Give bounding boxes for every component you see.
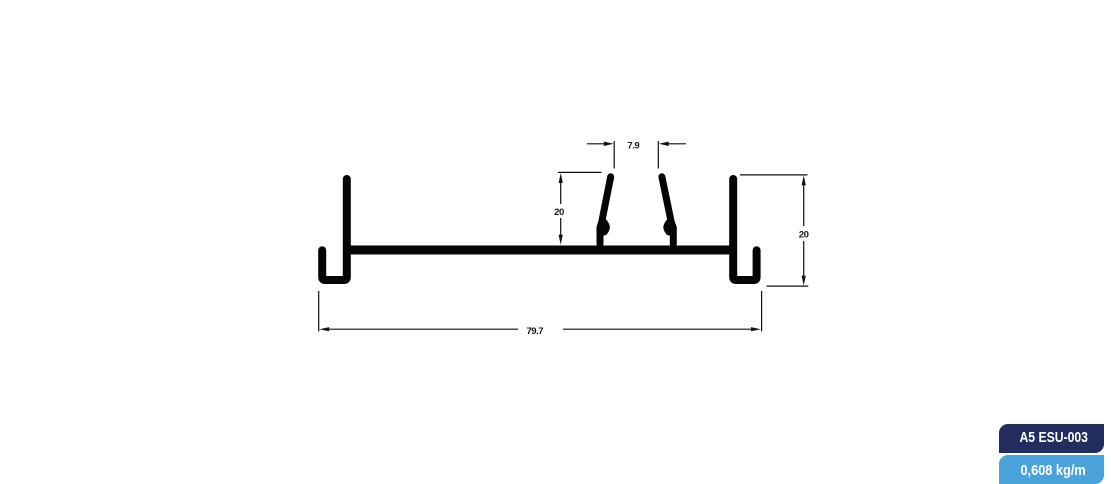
profile main horizontal bar (343, 246, 737, 255)
svg-text:79.7: 79.7 (526, 326, 543, 337)
dim 20 left: dimension line lower segment (560, 218, 562, 236)
svg-text:20: 20 (799, 230, 809, 241)
dim 7.9 left arrow line (587, 143, 605, 145)
dim 7.9 left extension line (613, 141, 615, 169)
left fin (600, 177, 611, 244)
profile left upright with J-hook (322, 179, 347, 280)
dim 20 right: down arrowhead (802, 276, 806, 286)
dim 20 right: dimension line upper segment (803, 184, 805, 226)
dim 79.7: left arrowhead (319, 327, 329, 331)
dim 7.9 right arrowhead (659, 142, 669, 146)
tag box: weight (999, 455, 1104, 484)
dim 79.7: dimension line left segment (328, 328, 518, 330)
dim 79.7: right arrowhead (751, 327, 761, 331)
dim 20 left: down arrowhead (559, 235, 563, 245)
dim 20 right: top extension line (740, 174, 808, 176)
dim 7.9 left arrowhead (604, 142, 614, 146)
dim 20 left: top extension line (558, 171, 602, 173)
dim 79.7: dimension line right segment (563, 328, 752, 330)
left fin nub (600, 216, 610, 236)
dim 79.7: left extension line (318, 291, 320, 331)
dim 20 left: up arrowhead (559, 173, 563, 183)
dim 20 right: up arrowhead (802, 175, 806, 185)
dim 7.9 right extension line (657, 141, 659, 169)
dim 20 right: bottom extension line (767, 285, 809, 287)
dim 20 right: dimension line lower segment (803, 241, 805, 277)
svg-text:7.9: 7.9 (627, 141, 639, 152)
dim 7.9 right arrow line (668, 143, 686, 145)
svg-text:20: 20 (554, 207, 564, 218)
right fin (662, 177, 673, 244)
dim 79.7: right extension line (761, 291, 763, 331)
right fin nub (663, 216, 673, 236)
dim 20 left: dimension line upper segment (560, 182, 562, 204)
tag box: profile code (999, 424, 1104, 453)
profile right upright with J-hook (733, 179, 756, 280)
